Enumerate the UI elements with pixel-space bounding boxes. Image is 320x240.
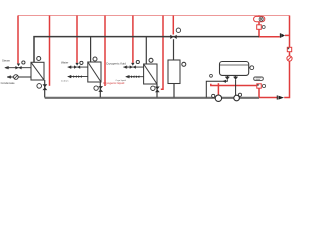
svg-text:Condensate: Condensate	[1, 81, 16, 85]
svg-text:Steam: Steam	[2, 59, 11, 63]
svg-text:Cryogenic fluid: Cryogenic fluid	[106, 61, 126, 65]
svg-text:Cryogenic liquid: Cryogenic liquid	[103, 81, 125, 85]
svg-text:Water: Water	[61, 60, 68, 64]
svg-text:to drain: to drain	[61, 79, 69, 82]
